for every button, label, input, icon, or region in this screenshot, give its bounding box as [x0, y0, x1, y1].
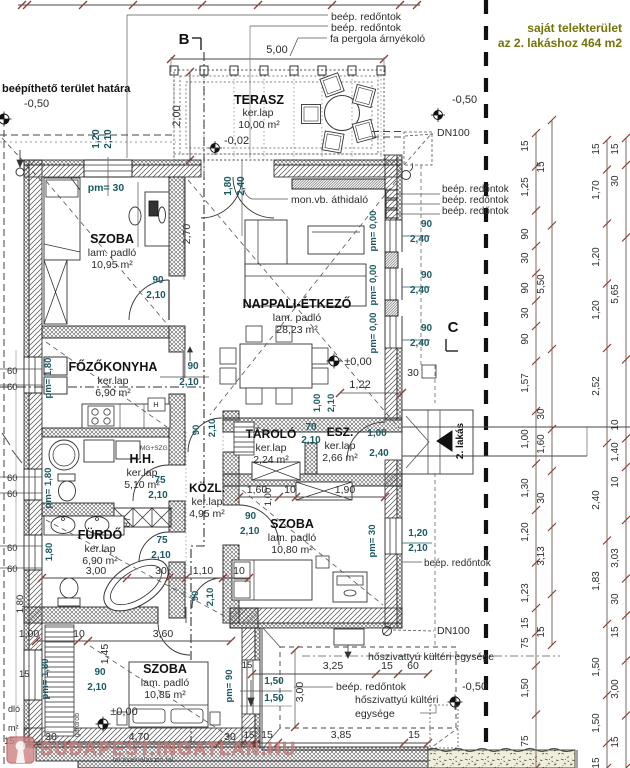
svg-text:pm= 1,80: pm= 1,80	[43, 358, 54, 399]
svg-text:2,10: 2,10	[240, 526, 260, 537]
svg-text:30: 30	[407, 367, 419, 379]
svg-text:1,50: 1,50	[591, 657, 602, 677]
svg-text:90: 90	[421, 219, 433, 230]
svg-text:pm= 0,00: pm= 0,00	[368, 211, 379, 252]
svg-text:2,66 m²: 2,66 m²	[322, 452, 358, 464]
svg-text:1,83: 1,83	[591, 571, 602, 591]
svg-text:1,20: 1,20	[520, 522, 531, 542]
svg-text:saját telekterület: saját telekterület	[527, 21, 622, 35]
svg-text:beép. redőntok: beép. redőntok	[424, 558, 492, 569]
svg-text:3,60: 3,60	[153, 628, 174, 640]
svg-text:5,50: 5,50	[536, 274, 547, 294]
svg-text:lam. padló: lam. padló	[88, 247, 137, 259]
svg-text:mon.vb. áthidaló: mon.vb. áthidaló	[291, 194, 368, 206]
svg-text:15: 15	[19, 669, 30, 680]
svg-text:90: 90	[520, 228, 531, 240]
svg-text:ker.lap: ker.lap	[192, 496, 223, 508]
svg-text:-0,50: -0,50	[462, 681, 487, 693]
svg-text:MG+SZG: MG+SZG	[140, 445, 168, 452]
svg-text:1,60: 1,60	[247, 484, 268, 496]
svg-text:1,00: 1,00	[19, 628, 40, 640]
svg-text:fa pergola árnyékoló: fa pergola árnyékoló	[330, 33, 425, 45]
svg-text:2,10: 2,10	[148, 490, 168, 501]
svg-text:3,03: 3,03	[610, 548, 621, 568]
svg-text:egysége: egysége	[355, 708, 395, 720]
svg-text:hőszivattyú kültéri: hőszivattyú kültéri	[355, 694, 438, 706]
svg-text:±0,00: ±0,00	[110, 706, 137, 718]
svg-text:2,40: 2,40	[369, 448, 389, 459]
svg-text:1,20: 1,20	[91, 129, 102, 149]
svg-text:az 2. lakáshoz 464 m2: az 2. lakáshoz 464 m2	[498, 36, 622, 50]
svg-text:1,60: 1,60	[536, 434, 547, 454]
svg-text:3,00: 3,00	[86, 565, 107, 577]
svg-text:pm= 0,00: pm= 0,00	[368, 313, 379, 354]
svg-text:1,50: 1,50	[264, 693, 284, 704]
svg-text:beép. redőntok: beép. redőntok	[336, 681, 407, 693]
svg-text:30: 30	[610, 175, 621, 187]
svg-text:10: 10	[610, 476, 621, 488]
svg-text:gardrób: gardrób	[74, 713, 81, 737]
svg-text:2,52: 2,52	[591, 376, 602, 396]
svg-text:15: 15	[536, 626, 547, 638]
svg-text:1,20: 1,20	[591, 247, 602, 267]
svg-text:pm= 90: pm= 90	[224, 669, 235, 702]
svg-text:3,85: 3,85	[331, 729, 352, 741]
svg-text:90: 90	[520, 282, 531, 294]
svg-text:10: 10	[610, 419, 621, 431]
svg-text:70: 70	[305, 422, 317, 433]
svg-text:75: 75	[520, 735, 531, 747]
svg-text:90: 90	[190, 591, 201, 602]
svg-text:90: 90	[520, 333, 531, 345]
svg-text:90: 90	[152, 275, 164, 286]
svg-text:2,00: 2,00	[171, 105, 183, 126]
svg-text:1,57: 1,57	[520, 373, 531, 393]
svg-text:FŐZŐKONYHA: FŐZŐKONYHA	[69, 359, 158, 374]
svg-text:1,45: 1,45	[99, 644, 111, 665]
svg-text:10,00 m²: 10,00 m²	[238, 119, 280, 131]
svg-text:30: 30	[536, 408, 547, 420]
svg-text:pm= 30: pm= 30	[367, 524, 378, 557]
svg-text:10,85 m²: 10,85 m²	[144, 689, 186, 701]
svg-text:-0,02: -0,02	[224, 135, 249, 147]
svg-text:SZOBA: SZOBA	[270, 517, 314, 531]
svg-text:1,23: 1,23	[520, 583, 531, 603]
svg-text:90: 90	[421, 270, 433, 281]
svg-text:2,10: 2,10	[146, 290, 166, 301]
svg-text:1,20: 1,20	[591, 300, 602, 320]
svg-text:3,00: 3,00	[610, 679, 621, 699]
svg-text:90: 90	[187, 361, 199, 372]
svg-text:pm= 1,80: pm= 1,80	[43, 468, 54, 509]
svg-text:1,40: 1,40	[610, 442, 621, 462]
svg-text:±0,00: ±0,00	[344, 356, 371, 368]
svg-text:75: 75	[520, 637, 531, 649]
svg-text:1,20: 1,20	[408, 528, 428, 539]
svg-text:DN100: DN100	[437, 625, 470, 637]
svg-text:pm= 0,00: pm= 0,00	[368, 265, 379, 306]
svg-text:1,00: 1,00	[520, 429, 531, 449]
svg-text:90: 90	[191, 425, 202, 436]
svg-text:beép. redőntok: beép. redőntok	[442, 206, 510, 217]
svg-text:-0,50: -0,50	[452, 94, 477, 106]
svg-text:15: 15	[381, 660, 393, 672]
svg-text:ker.lap: ker.lap	[325, 440, 356, 452]
svg-text:2,10: 2,10	[301, 435, 321, 446]
svg-text:2,10: 2,10	[205, 588, 216, 607]
svg-text:1,50: 1,50	[520, 678, 531, 698]
svg-text:3,00: 3,00	[294, 682, 306, 703]
svg-text:15: 15	[520, 617, 531, 629]
svg-text:H: H	[153, 400, 158, 409]
svg-text:1,50: 1,50	[264, 676, 284, 687]
svg-text:ker.lap: ker.lap	[85, 543, 116, 555]
svg-text:KÖZL.: KÖZL.	[189, 480, 225, 495]
svg-text:1,22: 1,22	[349, 379, 370, 391]
svg-text:TÁROLÓ: TÁROLÓ	[246, 426, 297, 441]
svg-text:dló: dló	[8, 704, 20, 714]
svg-text:10: 10	[233, 565, 245, 577]
svg-text:15: 15	[242, 660, 253, 671]
svg-text:FÜRDŐ: FÜRDŐ	[78, 527, 123, 542]
svg-text:5,65: 5,65	[610, 284, 621, 304]
svg-text:15: 15	[536, 161, 547, 173]
svg-text:m²: m²	[8, 723, 19, 733]
svg-text:BUDAPEST.INGATLAN.HU: BUDAPEST.INGATLAN.HU	[40, 739, 297, 759]
svg-text:90: 90	[245, 511, 257, 522]
svg-text:3,25: 3,25	[323, 660, 344, 672]
svg-text:1,00: 1,00	[312, 394, 323, 413]
svg-text:1,80: 1,80	[15, 595, 26, 614]
svg-text:28,23 m²: 28,23 m²	[276, 324, 318, 336]
svg-text:beép. redőntok: beép. redőntok	[442, 195, 510, 206]
svg-text:SZOBA: SZOBA	[90, 232, 134, 246]
svg-text:1,80: 1,80	[44, 543, 55, 562]
svg-text:15: 15	[408, 729, 420, 741]
svg-text:10: 10	[284, 484, 296, 496]
svg-text:1,00: 1,00	[367, 428, 387, 439]
svg-text:lam. padló: lam. padló	[141, 677, 190, 689]
svg-text:lam. padló: lam. padló	[273, 312, 322, 324]
svg-text:5,10 m²: 5,10 m²	[124, 479, 160, 491]
svg-text:15: 15	[610, 626, 621, 638]
svg-text:10,80 m²: 10,80 m²	[271, 544, 313, 556]
svg-text:TERASZ: TERASZ	[234, 93, 284, 107]
svg-text:2,10: 2,10	[408, 543, 428, 554]
svg-text:30: 30	[520, 307, 531, 319]
svg-text:30: 30	[610, 593, 621, 605]
svg-text:2,10: 2,10	[87, 682, 107, 693]
svg-text:ker.lap: ker.lap	[256, 442, 287, 454]
svg-text:10: 10	[73, 628, 85, 640]
svg-text:2,24 m²: 2,24 m²	[253, 454, 289, 466]
svg-text:15: 15	[591, 143, 602, 155]
svg-text:DN100: DN100	[437, 127, 470, 139]
svg-text:2. lakás: 2. lakás	[455, 422, 466, 459]
svg-text:90: 90	[94, 667, 106, 678]
svg-text:pm= 30: pm= 30	[88, 182, 125, 194]
svg-text:ker.lap: ker.lap	[243, 107, 274, 119]
svg-text:10,95 m²: 10,95 m²	[91, 259, 133, 271]
svg-text:beép. redőntok: beép. redőntok	[442, 184, 510, 195]
svg-text:60: 60	[407, 660, 419, 672]
svg-text:1,25: 1,25	[520, 177, 531, 197]
svg-text:6,90 m²: 6,90 m²	[95, 387, 131, 399]
svg-text:1,30: 1,30	[520, 478, 531, 498]
svg-text:ker.lap: ker.lap	[127, 467, 158, 479]
svg-text:1,10: 1,10	[193, 565, 214, 577]
svg-text:15: 15	[610, 143, 621, 155]
svg-text:15: 15	[591, 757, 602, 768]
svg-text:2,10: 2,10	[103, 129, 114, 149]
svg-text:1,50: 1,50	[591, 713, 602, 733]
svg-text:2,10: 2,10	[207, 419, 218, 438]
svg-text:90: 90	[421, 323, 433, 334]
svg-text:75: 75	[156, 535, 168, 546]
svg-text:SZOBA: SZOBA	[143, 662, 187, 676]
svg-text:1,90: 1,90	[335, 484, 356, 496]
svg-text:15: 15	[610, 736, 621, 748]
svg-text:2,40: 2,40	[591, 490, 602, 510]
svg-text:3,13: 3,13	[536, 546, 547, 566]
svg-text:5,00: 5,00	[266, 44, 287, 56]
svg-text:lam. padló: lam. padló	[268, 532, 317, 544]
svg-text:15: 15	[520, 140, 531, 152]
svg-text:ker.lap: ker.lap	[98, 375, 129, 387]
svg-text:NAPPALI-ÉTKEZŐ: NAPPALI-ÉTKEZŐ	[243, 296, 352, 311]
svg-text:2,10: 2,10	[179, 377, 199, 388]
svg-text:beépíthető terület határa: beépíthető terület határa	[2, 83, 131, 95]
svg-text:2,70: 2,70	[181, 224, 193, 245]
svg-text:1,70: 1,70	[591, 180, 602, 200]
svg-text:C: C	[448, 319, 459, 336]
svg-text:1,80: 1,80	[223, 176, 234, 196]
svg-text:30: 30	[520, 252, 531, 264]
svg-text:2,10: 2,10	[326, 394, 337, 413]
svg-text:30: 30	[155, 565, 167, 577]
svg-text:ESZ.: ESZ.	[327, 425, 354, 439]
svg-text:pm= 1,80: pm= 1,80	[40, 659, 51, 700]
svg-text:30: 30	[536, 492, 547, 504]
svg-text:B: B	[179, 31, 190, 48]
svg-text:H.H.: H.H.	[130, 452, 155, 466]
svg-text:2,40: 2,40	[236, 176, 247, 196]
svg-text:4,95 m²: 4,95 m²	[189, 508, 225, 520]
svg-text:-0,50: -0,50	[24, 98, 49, 110]
